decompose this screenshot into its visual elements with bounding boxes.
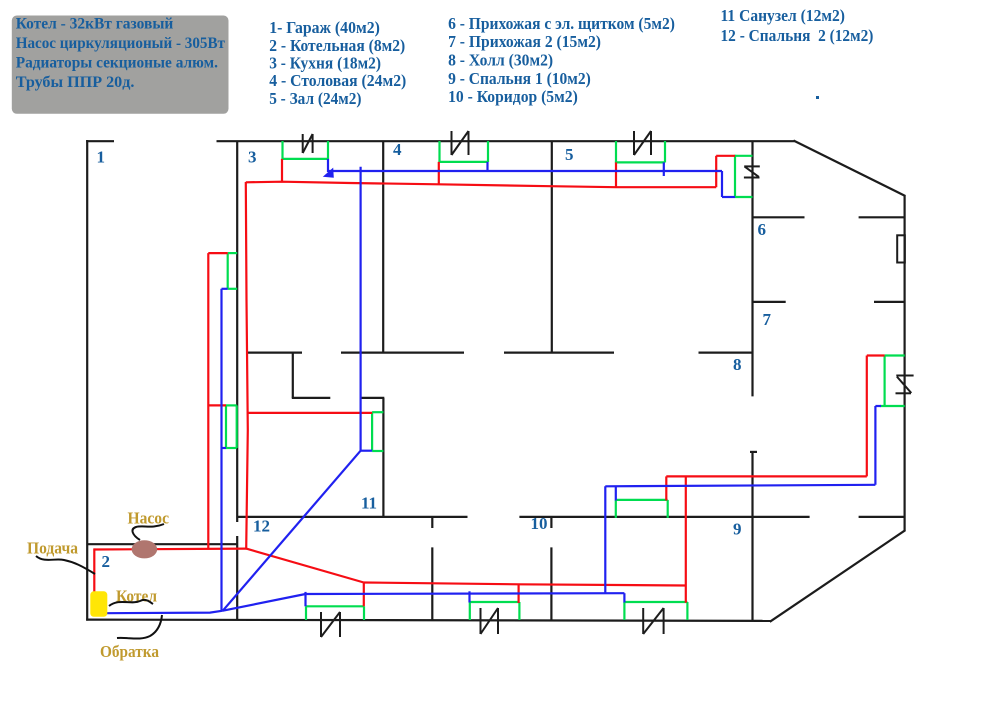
radiator room 6 <box>735 155 753 157</box>
boiler <box>90 591 107 617</box>
legend column 2 <box>448 14 675 106</box>
svg-text:11: 11 <box>361 494 377 513</box>
pipe red bottom main <box>364 583 686 586</box>
wall: garage/boiler-room y=544 <box>87 543 237 545</box>
wall: closet horizontal <box>292 397 331 399</box>
svg-text:12: 12 <box>253 517 270 536</box>
svg-text:7 - Прихожая 2 (15м2): 7 - Прихожая 2 (15м2) <box>448 32 601 51</box>
radiator bottom right <box>624 601 687 603</box>
wall: x=752 lower <box>751 451 753 621</box>
radiator kitchen wall <box>228 252 238 254</box>
pipe red hall main <box>666 475 867 477</box>
info text <box>16 15 225 91</box>
wall: x=432 jamb <box>431 517 433 528</box>
pipe red pump line <box>94 547 246 550</box>
wall: top-right chamfer <box>794 141 906 197</box>
pipe blue long drop x=360 <box>360 167 362 451</box>
svg-text:10: 10 <box>531 514 548 533</box>
pipe blue bottom main <box>306 592 625 595</box>
wall: y=352 seg d <box>699 352 753 354</box>
pipe red riser x=686 <box>685 476 687 602</box>
wall: top outer <box>217 140 795 142</box>
pipe blue kitchen radiator return <box>222 288 228 290</box>
wall: x=237 lower <box>236 536 238 620</box>
window symbol bottom room 9a <box>642 608 644 634</box>
svg-text:Котел - 32кВт газовый: Котел - 32кВт газовый <box>16 15 174 33</box>
pipe blue right riser <box>874 406 876 485</box>
svg-text:6 - Прихожая с эл. щитком (5м2: 6 - Прихожая с эл. щитком (5м2) <box>448 14 675 33</box>
radiator room 3 <box>281 141 283 159</box>
wall: room6 bottom left seg <box>753 216 805 218</box>
pipe blue drop radiator 5 <box>663 162 665 176</box>
pipe red drop radiator bottom-left <box>363 583 365 607</box>
wall: room7 bottom left seg <box>753 301 786 303</box>
legend column 3 <box>721 6 874 45</box>
wall: room11 right <box>382 398 384 517</box>
squiggle kotel pointer <box>109 600 153 606</box>
wall: room6 bottom right seg <box>859 216 905 218</box>
pipe blue kitchen riser x=221 <box>220 289 222 611</box>
wall: x=752 upper (room 5 right) <box>751 141 753 396</box>
pipe red bottom diagonal <box>246 549 364 583</box>
radiator room 11 <box>372 411 383 413</box>
wall: room7 bottom right seg <box>874 301 905 303</box>
wall: door stub x=752 <box>750 451 757 453</box>
wall: x=551 jamb <box>550 517 552 528</box>
pipe red drop radiator 4 <box>438 162 440 185</box>
wall: y=352 seg b <box>341 352 464 354</box>
radiator room 9 <box>885 354 905 356</box>
svg-text:6: 6 <box>758 220 767 239</box>
pipe blue top main <box>328 170 722 172</box>
wall: bottom outer <box>86 620 771 621</box>
squiggle obratka pointer <box>117 615 162 639</box>
pipe red riser x=208 <box>207 253 209 549</box>
wall: y=352 seg c <box>504 352 614 354</box>
pipe blue room11 radiator return <box>361 450 373 452</box>
pipe red room11 radiator feed <box>247 412 372 414</box>
svg-text:11 Санузел (12м2): 11 Санузел (12м2) <box>721 6 845 25</box>
svg-text:4 - Столовая (24м2): 4 - Столовая (24м2) <box>269 71 406 90</box>
squiggle pump pointer <box>133 524 164 540</box>
pipe blue drop hall radiator <box>615 486 617 500</box>
svg-text:3: 3 <box>248 148 257 167</box>
pipe blue room6 bend <box>721 171 723 197</box>
radiator bottom left <box>306 605 364 607</box>
wall: x=383 (rooms 3/4) <box>382 141 384 353</box>
svg-text:4: 4 <box>393 140 402 159</box>
pipe red room9 radiator feed <box>867 354 885 356</box>
pipe red riser room 6 <box>715 156 717 187</box>
svg-text:Обратка: Обратка <box>100 642 159 661</box>
wall: x=432 lower <box>431 547 433 620</box>
wall: garage top stub <box>86 140 114 142</box>
pipe blue drop radiator bottom-right <box>623 593 625 602</box>
window symbol room 5 <box>633 131 635 155</box>
svg-text:7: 7 <box>763 310 772 329</box>
pipe blue riser x=605 <box>604 486 606 593</box>
info box <box>12 16 229 114</box>
svg-text:Трубы ППР 20д.: Трубы ППР 20д. <box>16 73 135 91</box>
pipe blue shallow diagonal <box>223 594 306 611</box>
svg-text:Насос циркуляционый - 305Вт: Насос циркуляционый - 305Вт <box>16 34 225 52</box>
wall: closet vertical <box>292 353 294 398</box>
svg-text:2 - Котельная (8м2): 2 - Котельная (8м2) <box>269 36 405 55</box>
pipe blue room6 radiator return <box>722 196 735 198</box>
radiator hall <box>616 499 668 501</box>
window symbol room 3 <box>302 134 304 153</box>
pipe red room6 radiator feed <box>716 155 735 157</box>
pipe blue room9 radiator return <box>875 405 881 407</box>
wall: y=517 seg a <box>237 516 467 518</box>
pipe red right riser <box>866 356 868 477</box>
svg-text:8: 8 <box>733 355 742 374</box>
svg-text:9 - Спальня 1 (10м2): 9 - Спальня 1 (10м2) <box>448 69 591 88</box>
pipe red drop radiator bottom-middle <box>517 584 519 603</box>
svg-text:12 - Спальня 2 (12м2): 12 - Спальня 2 (12м2) <box>721 26 874 45</box>
svg-text:10 - Коридор (5м2): 10 - Коридор (5м2) <box>448 87 578 106</box>
pipe red room12 radiator feed <box>208 404 226 406</box>
legend column 1 <box>269 18 406 108</box>
arrowhead blue <box>323 168 334 178</box>
wall: x=237 upper (garage right) <box>236 141 238 522</box>
svg-text:5: 5 <box>565 145 574 164</box>
wall: garage left outer <box>86 140 88 621</box>
svg-text:5 - Зал (24м2): 5 - Зал (24м2) <box>269 89 361 108</box>
radiator room 4 <box>438 141 440 162</box>
pipe red drop hall radiator <box>665 476 667 500</box>
pipe blue drop radiator bottom-left <box>304 592 306 606</box>
wall: y=517 seg c <box>859 516 905 518</box>
pipe red main riser x=246 <box>246 182 248 549</box>
pipe blue drop radiator 4 <box>486 162 488 171</box>
room numbers <box>97 140 772 571</box>
pipe blue room12 radiator return <box>222 447 227 449</box>
window symbol bottom room 12a <box>320 612 322 637</box>
wall: bottom-right chamfer <box>770 530 906 622</box>
svg-text:2: 2 <box>102 552 111 571</box>
window symbol room 6 vertical wall <box>744 165 760 167</box>
pipe red drop radiator 3 <box>281 159 283 182</box>
pipe blue big diagonal <box>223 451 361 611</box>
squiggle podacha pointer <box>36 556 95 574</box>
svg-text:Радиаторы секционые алюм.: Радиаторы секционые алюм. <box>16 54 218 72</box>
radiator bottom middle <box>470 601 520 603</box>
wall: x=551 lower <box>550 547 552 620</box>
window niche room 6 <box>897 235 905 262</box>
wall: room11 top <box>361 397 385 399</box>
svg-text:3 - Кухня (18м2): 3 - Кухня (18м2) <box>269 54 381 73</box>
wall: x=552 (rooms 4/5) <box>551 141 553 353</box>
pipe blue boiler return <box>107 611 223 614</box>
wall: y=352 seg a <box>246 352 302 354</box>
svg-text:Подача: Подача <box>27 539 78 558</box>
pipe red top main <box>246 182 716 188</box>
window symbol room 4 <box>451 131 453 155</box>
pipe blue drop radiator 3 <box>327 159 329 172</box>
window symbol room 9 right wall <box>896 375 913 377</box>
svg-text:8 - Холл (30м2): 8 - Холл (30м2) <box>448 50 553 69</box>
stray dot <box>816 96 819 99</box>
wall: y=517 seg b <box>519 516 809 518</box>
svg-text:1: 1 <box>97 148 106 167</box>
pump <box>132 540 158 558</box>
radiator room 5 <box>615 141 617 163</box>
svg-text:9: 9 <box>733 520 742 539</box>
window symbol bottom room 10a <box>480 608 482 634</box>
radiator room 12 <box>226 404 237 406</box>
pipe red kitchen radiator feed <box>208 252 227 254</box>
pipe red boiler riser <box>93 548 95 592</box>
pipe blue drop radiator bottom-middle <box>468 591 470 602</box>
pipe red drop radiator 5 <box>615 162 617 187</box>
pipe blue hall main <box>605 485 875 487</box>
svg-text:1- Гараж (40м2): 1- Гараж (40м2) <box>269 18 380 37</box>
wall: right outer <box>903 195 905 531</box>
